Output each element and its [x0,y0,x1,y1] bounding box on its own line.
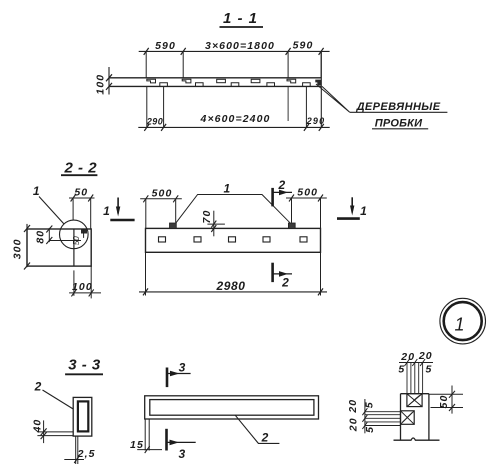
plug left on top edge [170,223,177,228]
svg-text:5: 5 [426,363,433,375]
dim 15 extensions [144,419,146,451]
tick [41,428,47,435]
inner face line [73,229,75,266]
tick [24,263,30,270]
svg-text:290: 290 [306,116,326,126]
svg-text:20: 20 [347,399,359,414]
extension line [163,86,165,127]
svg-text:70: 70 [201,210,213,224]
channel inner thick [78,401,88,431]
tick [24,225,30,232]
svg-text:290: 290 [146,116,163,126]
extension plug [175,199,177,223]
tick line [207,223,225,225]
svg-text:1: 1 [103,204,110,218]
ticks [362,408,367,415]
tick [144,48,149,55]
dim 40 vertical [43,420,45,443]
extension right [320,252,322,295]
extension plug [291,198,293,223]
svg-text:5: 5 [398,363,405,375]
lower plug square [401,411,415,425]
dim line 2980 [139,291,327,293]
leader lines to wooden plugs note [316,84,350,112]
plug right on top edge [288,223,295,228]
dim 40 extensions [37,431,73,433]
extension overshoot below beam [287,86,289,121]
extension line [320,51,322,77]
tick [144,124,149,131]
svg-text:1: 1 [360,204,367,218]
svg-text:500: 500 [297,187,318,199]
upper plug X [407,394,422,407]
outline left [400,394,402,441]
dim line 500 right [286,197,327,199]
svg-text:100: 100 [72,281,93,293]
section mark 2 top [271,188,274,207]
svg-text:590: 590 [293,40,314,52]
svg-text:100: 100 [95,74,107,95]
dim 2.5 extensions [75,436,77,464]
tick [106,83,112,90]
top dim line [399,362,433,364]
ticks [405,359,410,366]
cross-section outline [27,229,91,266]
tick [89,289,94,296]
tick [88,195,93,202]
tick [286,48,291,55]
svg-text:3 - 3: 3 - 3 [68,357,101,374]
dim line 300 (left edge extended) [26,224,28,267]
holes in plan [159,237,308,242]
section mark 1 left [117,198,119,214]
tick [211,225,216,232]
svg-text:40: 40 [31,419,43,434]
svg-text:2980: 2980 [215,279,245,293]
dim line 100 vertical at left [108,67,110,95]
tick [289,195,294,202]
channel outer [73,397,92,436]
top dimension line [139,50,330,52]
tick [304,124,309,131]
svg-text:1: 1 [33,184,40,198]
beam right edge [320,51,322,127]
svg-text:50: 50 [74,187,88,199]
svg-text:50: 50 [72,236,81,245]
svg-text:5: 5 [364,426,376,433]
tick [106,74,112,81]
dim 70 vertical [213,211,215,237]
dim 50 vertical [451,386,453,414]
leader 2 mid bar [235,415,279,443]
plug pin line [83,229,85,238]
outline top [401,393,429,395]
extension [90,198,92,229]
svg-text:4×600=2400: 4×600=2400 [200,113,271,125]
wooden plug marks on top edge [147,79,296,83]
outline bottom with break [394,438,440,440]
svg-text:2: 2 [277,178,285,192]
svg-text:ДЕРЕВЯННЫЕ: ДЕРЕВЯННЫЕ [356,101,441,113]
beam top line [109,77,321,79]
right end plug dark [315,80,321,86]
section mark 3 bottom [165,429,168,451]
tick [181,48,186,55]
detail circle [60,220,89,249]
inner circle thick [444,302,482,340]
tick [41,432,47,439]
extension line [287,51,289,77]
tick [449,391,455,398]
svg-text:15: 15 [130,439,144,451]
tick [71,195,76,202]
svg-text:2,5: 2,5 [77,448,96,460]
extension line [182,51,184,77]
svg-text:80: 80 [35,230,47,244]
left dim line vertical [364,399,366,433]
tick [74,456,79,463]
svg-text:20: 20 [418,350,433,362]
lower plug X [401,411,415,425]
tick [145,446,150,453]
svg-text:3: 3 [179,361,186,375]
tick [46,226,52,233]
svg-text:1: 1 [223,181,230,195]
svg-text:300: 300 [12,238,24,259]
extension [72,198,74,221]
bottom dimension line [138,126,329,128]
outline right [428,394,430,441]
outer circle [440,298,486,344]
svg-text:1 - 1: 1 - 1 [223,10,258,27]
svg-text:2: 2 [34,380,42,394]
tick [318,195,323,202]
tick [161,124,166,131]
svg-text:50: 50 [438,395,450,409]
tick [143,288,148,295]
descending extension lines [406,363,408,394]
hole marks on bottom edge [160,83,310,86]
leader 2 [43,390,74,409]
extension line [145,51,147,77]
beam bottom line [109,85,321,87]
svg-text:500: 500 [152,187,173,199]
tick [46,237,52,244]
dim 50 extensions [429,393,463,395]
tick [449,404,455,411]
svg-text:20: 20 [348,417,360,432]
plan view outline [146,228,321,252]
svg-text:2: 2 [281,276,289,290]
section mark 1 right [351,197,353,212]
dim 2.5 line [64,459,84,461]
dim line 50 [69,197,95,199]
svg-text:1: 1 [454,315,464,335]
dim 15 line [137,449,162,451]
tick [211,221,216,228]
tick [319,124,324,131]
dim line 100 bottom [69,292,101,294]
bar inner [150,400,314,416]
svg-text:ПРОБКИ: ПРОБКИ [375,118,423,130]
tick [71,289,76,296]
bar outer [145,396,319,419]
svg-text:3×600=1800: 3×600=1800 [205,40,275,52]
horizontal extension lines [365,411,401,413]
extension (beam right edge up) [320,198,322,228]
extension left [145,252,147,295]
dim line 80 [48,228,50,242]
extension line [305,86,307,127]
svg-text:590: 590 [155,40,176,52]
extension [73,270,75,295]
tick [319,48,324,55]
svg-text:3: 3 [178,447,185,461]
leader 1 line [39,197,64,224]
leader 1 trapezoid [176,195,290,223]
svg-text:2: 2 [261,431,269,445]
svg-text:5: 5 [364,401,376,408]
tick [318,288,323,295]
extension line [146,86,148,127]
extension (beam left edge up) [145,199,147,229]
dim line 500 left [140,198,182,200]
tick [173,195,178,202]
section mark 3 top [166,368,169,388]
upper plug square [407,394,422,407]
svg-text:20: 20 [400,351,415,363]
section mark 2 bottom [271,263,274,282]
tick [143,195,148,202]
extension 80 [49,240,81,242]
extension [90,266,92,298]
svg-text:2 - 2: 2 - 2 [64,160,98,177]
plug in section (dark) [81,229,87,233]
